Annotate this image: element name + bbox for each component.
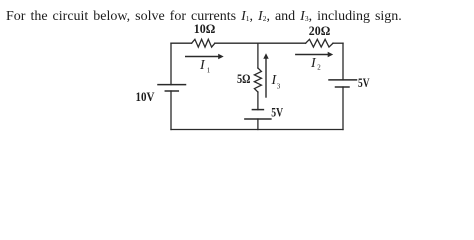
wire middle battery to bottom rail xyxy=(257,119,259,130)
svg-text:1: 1 xyxy=(207,67,211,75)
svg-text:5V: 5V xyxy=(271,105,283,119)
svg-text:I: I xyxy=(310,56,317,71)
svg-text:3: 3 xyxy=(277,83,281,91)
battery 5V right long plate xyxy=(329,79,357,81)
svg-text:10V: 10V xyxy=(136,90,155,104)
wire middle branch upper xyxy=(257,43,259,68)
problem statement text xyxy=(6,9,402,25)
battery 10V long plate xyxy=(158,84,186,86)
svg-text:5V: 5V xyxy=(358,76,370,90)
resistor 20Ω zigzag xyxy=(306,39,333,47)
wire top-middle segment xyxy=(215,42,306,44)
resistor 5Ω zigzag xyxy=(254,68,261,92)
svg-text:I: I xyxy=(199,58,206,73)
label I1 xyxy=(199,58,211,75)
svg-text:5Ω: 5Ω xyxy=(237,72,251,86)
wire left vertical upper xyxy=(170,43,172,84)
battery 5V middle short plate xyxy=(252,109,263,111)
wire middle to battery xyxy=(257,92,259,110)
battery 10V short plate xyxy=(165,90,178,92)
wire left vertical lower xyxy=(170,91,172,130)
svg-text:10Ω: 10Ω xyxy=(194,22,216,36)
wire top-left segment xyxy=(171,42,192,44)
current arrow I3 xyxy=(263,53,268,97)
wire right vertical upper xyxy=(342,43,344,80)
resistor 10Ω zigzag xyxy=(192,39,215,47)
wire top-right segment xyxy=(333,42,343,44)
wire bottom rail xyxy=(171,129,343,131)
current arrow I2 xyxy=(296,52,333,57)
svg-text:2: 2 xyxy=(317,64,321,72)
label I2 xyxy=(310,56,321,72)
current arrow I1 xyxy=(186,54,224,59)
battery 5V middle long plate xyxy=(245,118,271,120)
label I3 xyxy=(271,73,281,91)
svg-text:20Ω: 20Ω xyxy=(309,24,331,38)
wire right vertical lower xyxy=(342,87,344,130)
battery 5V right short plate xyxy=(336,86,350,88)
